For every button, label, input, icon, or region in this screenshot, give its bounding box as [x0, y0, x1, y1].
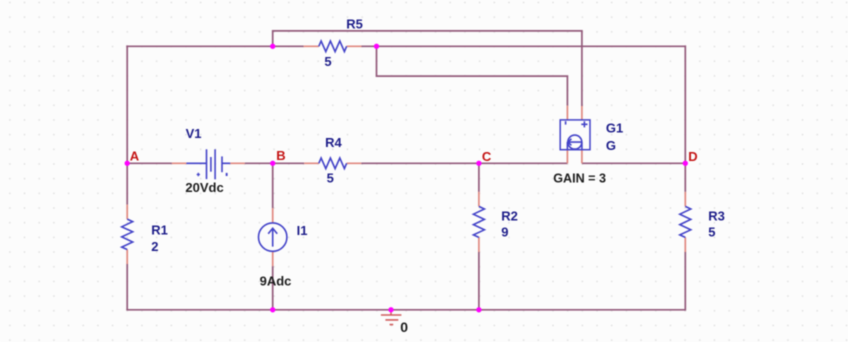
svg-text:5: 5 [708, 225, 715, 240]
svg-text:R1: R1 [151, 223, 168, 238]
wire node B to R4 left pin [273, 162, 305, 164]
wire R4 right pin to node C [361, 162, 479, 164]
wire V1 right pin to node B [245, 162, 273, 164]
wire left rail A-net (top segment) [126, 45, 128, 204]
svg-text:9Adc: 9Adc [260, 274, 292, 289]
junction dot R2 at bottom rail [476, 307, 481, 312]
svg-text:R4: R4 [325, 135, 342, 150]
wire G1 bottom-right pin to node D [582, 162, 685, 164]
svg-text:5: 5 [327, 171, 334, 186]
svg-text:I1: I1 [297, 223, 308, 238]
resistor R4 [304, 158, 361, 169]
svg-text:R3: R3 [708, 208, 725, 223]
svg-text:9: 9 [501, 225, 508, 240]
resistor R5 [304, 41, 362, 52]
wire node A to V1 left pin [127, 162, 172, 164]
junction dot node C [476, 161, 481, 166]
wire node B down to I1 [272, 163, 274, 208]
svg-text:5: 5 [324, 54, 331, 69]
wire left rail A-net (bottom segment) [126, 264, 128, 310]
svg-text:2: 2 [151, 239, 158, 254]
svg-text:0: 0 [400, 319, 408, 335]
wire bottom rail ground net [126, 309, 685, 311]
resistor R3 [680, 192, 691, 252]
junction dot R5 left / feedback tap [270, 44, 275, 49]
svg-text:A: A [130, 149, 140, 164]
svg-text:G1: G1 [606, 120, 623, 135]
current source I1 [259, 208, 287, 266]
svg-text:G: G [606, 138, 616, 153]
svg-text:20Vdc: 20Vdc [185, 180, 223, 195]
dependent source G1 (VCCS) [560, 106, 590, 164]
junction dot node B [270, 161, 275, 166]
resistor R1 [122, 205, 133, 264]
svg-text:GAIN = 3: GAIN = 3 [553, 172, 606, 186]
svg-text:R5: R5 [346, 17, 363, 32]
wire top rail from left rail to R5 left pin [126, 45, 303, 47]
wire R2 to bottom rail [478, 252, 480, 310]
svg-text:R2: R2 [501, 208, 518, 223]
wire feedback upper: R5 left dot up and across to G1 plus pin [273, 31, 582, 106]
svg-text:B: B [276, 148, 285, 163]
svg-text:C: C [482, 149, 492, 164]
wire right rail D-net [684, 45, 686, 192]
resistor R2 [473, 192, 484, 252]
wire node C down to R2 [478, 163, 480, 192]
svg-text:V1: V1 [186, 126, 202, 141]
wire top rail from R5 right pin to node D corner [362, 45, 686, 47]
wire I1 to bottom rail [272, 266, 274, 310]
junction dot R5 right / feedback tap [374, 44, 379, 49]
junction dot node D [683, 161, 688, 166]
junction dot node A [125, 161, 130, 166]
junction dot I1 at bottom rail [270, 307, 275, 312]
wire feedback lower: R5 right dot down and across to G1 minus pin [377, 46, 568, 105]
wire right rail D-net lower segment [684, 252, 686, 311]
junction dot ground at bottom rail [388, 307, 393, 312]
wire node C to G1 bottom-left pin [479, 162, 568, 164]
ground symbol node 0 [381, 310, 402, 325]
voltage source V1 (DC battery) [172, 149, 245, 179]
svg-text:D: D [688, 149, 697, 164]
